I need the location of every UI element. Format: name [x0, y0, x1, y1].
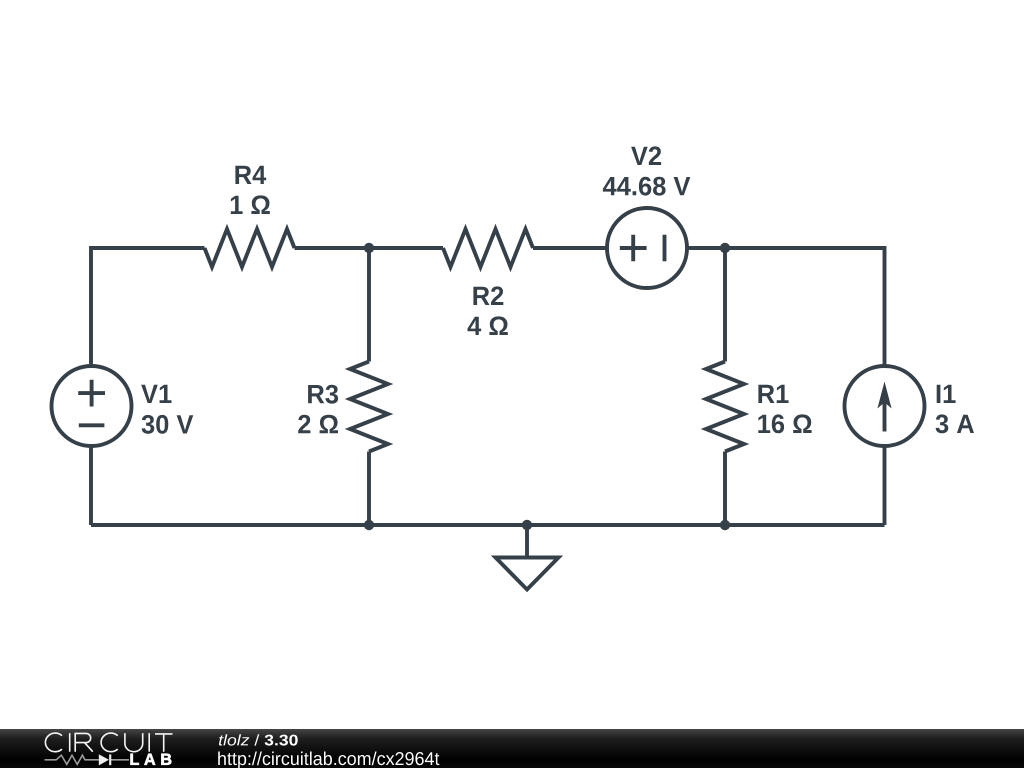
- bottom rail (ground net): [91, 523, 885, 527]
- label 3 A: [936, 414, 974, 433]
- wire V1 bottom: [89, 446, 93, 525]
- wire I1 bottom: [883, 446, 887, 525]
- resistor R4: [205, 229, 295, 267]
- wire V2 to I1 branch: [687, 248, 885, 366]
- footer text 3.30: [265, 735, 298, 746]
- ground triangle: [496, 558, 559, 590]
- resistor R2: [443, 229, 533, 267]
- wire R2 to V2: [533, 246, 607, 250]
- label R3: [308, 385, 338, 404]
- logo diode triangle: [99, 754, 109, 765]
- junction dot bottom R1: [720, 520, 730, 530]
- label 30 V: [142, 415, 194, 434]
- label 1 Ω: [231, 195, 270, 214]
- footer text tlolz: [219, 734, 249, 745]
- voltage source V1: [52, 366, 132, 446]
- label R1: [758, 385, 788, 403]
- footer url: [218, 752, 439, 768]
- wire R1 to bottom rail: [723, 452, 727, 526]
- wire R3 to bottom rail: [367, 452, 371, 526]
- label 44.68 V: [603, 177, 690, 196]
- voltage source V2: [607, 208, 687, 288]
- junction dot ground: [522, 520, 532, 530]
- label R2: [473, 286, 503, 305]
- label 4 Ω: [468, 316, 508, 335]
- footer slash: [254, 734, 259, 745]
- resistor R3: [350, 362, 388, 452]
- logo symbol wire + resistor: [45, 755, 130, 764]
- arrowhead of I1: [877, 382, 891, 409]
- wire R4 to node A: [295, 246, 444, 250]
- wire V1 top to R4: [91, 248, 205, 366]
- wire node B to R1: [723, 248, 727, 362]
- wire node A to R3: [367, 248, 371, 362]
- label 16 Ω: [758, 414, 811, 433]
- label 2 Ω: [298, 415, 338, 434]
- label V2: [631, 146, 661, 165]
- junction dot bottom R3: [364, 520, 374, 530]
- label V1: [141, 385, 171, 403]
- logo diode cathode bar: [109, 754, 111, 765]
- label R4: [235, 166, 266, 184]
- footer bar: [0, 729, 1024, 768]
- resistor R1: [706, 362, 744, 452]
- label I1: [937, 385, 956, 403]
- ground stem: [525, 525, 529, 558]
- junction dot node A: [364, 243, 374, 253]
- logo CIRCUIT: [45, 733, 172, 752]
- current source I1: [845, 366, 925, 446]
- junction dot node B: [720, 243, 730, 253]
- logo LAB: [131, 754, 172, 765]
